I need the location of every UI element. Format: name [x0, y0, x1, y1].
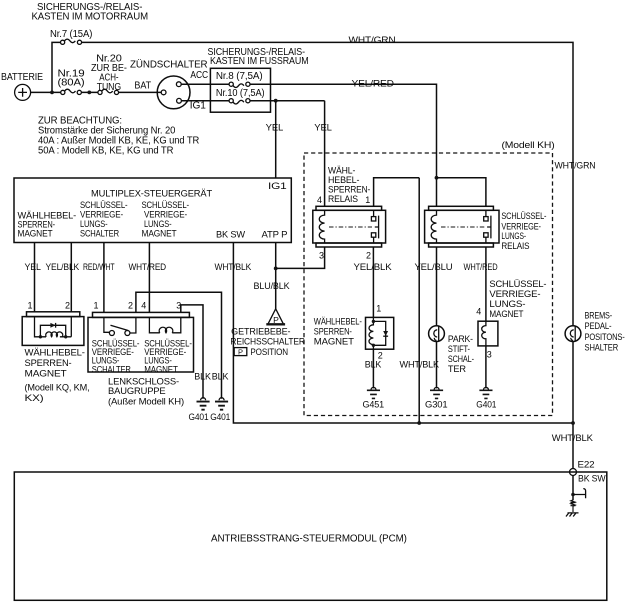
labels brake pedal position switch	[585, 310, 625, 352]
svg-text:G451: G451	[363, 400, 385, 410]
wire battery to ignition BAT	[31, 91, 162, 93]
wire relay1 pin3 to ATP P node	[276, 247, 325, 268]
svg-text:SCHLÜSSEL-: SCHLÜSSEL-	[80, 200, 128, 210]
svg-text:ACC: ACC	[190, 70, 208, 81]
multiplex control unit U-MPX	[14, 178, 291, 243]
svg-text:HEBEL-: HEBEL-	[328, 175, 359, 185]
wire YEL to relay1 pin4	[324, 101, 326, 207]
svg-text:YEL/BLU: YEL/BLU	[415, 262, 453, 272]
fuse Nr.8 (7,5A)	[216, 71, 263, 87]
svg-text:(Außer Modell KH): (Außer Modell KH)	[108, 396, 184, 406]
svg-text:LENKSCHLOSS-: LENKSCHLOSS-	[108, 377, 179, 387]
svg-text:VERRIEGE-: VERRIEGE-	[80, 210, 123, 220]
svg-text:LUNGS-: LUNGS-	[501, 231, 526, 241]
svg-text:WHT/RED: WHT/RED	[129, 262, 167, 272]
svg-text:PEDAL-: PEDAL-	[585, 321, 612, 331]
svg-text:BLK: BLK	[194, 371, 211, 381]
svg-text:VERRIEGE-: VERRIEGE-	[501, 221, 541, 231]
relay U1 body	[313, 206, 386, 247]
wire relay1 pin1 up-over-down to WHT/BLK net	[374, 178, 420, 423]
PCM box ANTRIEBSSTRANG-STEUERMODUL	[14, 472, 607, 600]
wire brake switch down to E22	[572, 342, 574, 469]
svg-text:YEL/BLK: YEL/BLK	[354, 262, 392, 272]
svg-text:WHT/GRN: WHT/GRN	[349, 35, 396, 45]
labels BLK BLK	[194, 371, 228, 381]
svg-text:G301: G301	[425, 400, 448, 410]
svg-text:GETRIEBEBE-: GETRIEBEBE-	[231, 326, 290, 336]
wire YEL/BLK relay1 pin2 to KH magnet	[372, 247, 374, 317]
svg-text:2: 2	[366, 250, 371, 260]
labels KH solenoid	[314, 317, 362, 347]
wire WHT/RED multiplex to lenkschloss pin4	[148, 243, 150, 313]
wire BLK to G451	[372, 349, 374, 388]
relay U1 WAHLHEBEL-SPERREN-RELAIS labels	[317, 165, 370, 205]
svg-text:50A : Modell KB, KE, KG und TR: 50A : Modell KB, KE, KG und TR	[38, 145, 173, 156]
svg-text:VERRIEGE-: VERRIEGE-	[489, 289, 540, 299]
labels relay U2	[501, 211, 546, 251]
wire WHT/BLK multiplex BK SW down and across to E22 net	[233, 243, 573, 424]
svg-text:YEL/RED: YEL/RED	[352, 78, 395, 88]
svg-text:PARK-: PARK-	[448, 334, 473, 344]
wire YEL/BLK multiplex to magnet pin2	[70, 243, 72, 312]
svg-text:2: 2	[65, 301, 70, 311]
svg-text:SCHLÜSSEL-: SCHLÜSSEL-	[501, 211, 546, 221]
svg-text:SCHALTER: SCHALTER	[80, 229, 120, 239]
wire YEL multiplex to magnet pin1	[34, 243, 36, 312]
svg-text:BAT: BAT	[134, 80, 151, 91]
labels shift-lock solenoid KQ/KM/KX	[25, 348, 90, 404]
svg-text:MULTIPLEX-STEUERGERÄT: MULTIPLEX-STEUERGERÄT	[91, 189, 213, 199]
wire solenoid to G401	[485, 346, 487, 389]
svg-text:BK SW: BK SW	[578, 473, 606, 483]
ignition switch	[157, 76, 190, 109]
svg-text:LUNGS-: LUNGS-	[80, 219, 108, 229]
wire ACC to fuse8 and on to YEL/RED	[181, 84, 436, 206]
labels steering lock assembly	[108, 377, 184, 407]
fuse Nr.10 (7,5A)	[216, 88, 265, 104]
wire YEL to multiplex IG1	[275, 101, 277, 178]
svg-text:TER: TER	[448, 364, 467, 374]
svg-text:Nr.8 (7,5A): Nr.8 (7,5A)	[216, 71, 263, 82]
shift-lock solenoid (Modell KQ KM KX)	[22, 301, 84, 346]
svg-text:BREMS-: BREMS-	[585, 310, 613, 320]
ground G401 left pair 2	[210, 398, 230, 422]
key interlock switch inside assembly	[92, 317, 140, 374]
svg-text:BATTERIE: BATTERIE	[1, 72, 43, 83]
svg-text:SPERREN-: SPERREN-	[25, 358, 72, 368]
svg-text:SCHALTER: SCHALTER	[92, 364, 132, 374]
svg-text:ZÜNDSCHALTER: ZÜNDSCHALTER	[130, 60, 208, 71]
svg-text:P: P	[238, 347, 243, 356]
ground G401 (KH)	[476, 387, 496, 409]
svg-text:LUNGS-: LUNGS-	[489, 299, 525, 309]
svg-text:E22: E22	[578, 459, 595, 469]
svg-text:4: 4	[141, 301, 146, 311]
svg-text:KX): KX)	[25, 393, 44, 403]
fuse Nr.20 ZUR BEACHTUNG	[91, 54, 127, 95]
svg-text:IG1: IG1	[190, 101, 206, 112]
svg-text:REICHSSCHALTER: REICHSSCHALTER	[230, 337, 305, 347]
label engine-room fuse/relay box	[32, 2, 149, 23]
wire branch to relay2 contact pin	[437, 178, 486, 207]
svg-text:1: 1	[376, 303, 381, 313]
svg-text:KASTEN IM MOTORRAUM: KASTEN IM MOTORRAUM	[32, 12, 149, 23]
junction dot battery branch	[50, 91, 54, 95]
relay U2 SCHLUSSEL-VERRIEGELUNGS-RELAIS body	[425, 206, 499, 247]
transmission range switch P position symbol	[266, 309, 285, 325]
svg-text:SCHAL-: SCHAL-	[448, 354, 474, 364]
svg-text:WHT/BLK: WHT/BLK	[215, 262, 252, 272]
svg-text:SHALTER: SHALTER	[585, 343, 619, 353]
junction dot WHT/BLK bus right	[571, 421, 575, 425]
brake pedal position switch	[565, 326, 581, 342]
junction dot YEL/RED branch	[435, 176, 439, 180]
wire lenkschloss pin2 up over to right BLK ground	[136, 292, 222, 399]
connector E22	[570, 469, 577, 476]
junction dot fuse10 output	[274, 99, 278, 103]
svg-text:STIFT-: STIFT-	[448, 344, 470, 354]
labels PARK-STIFT-SCHALTER	[448, 334, 474, 374]
svg-text:WHT/RED: WHT/RED	[464, 262, 499, 272]
svg-text:BLK: BLK	[365, 359, 382, 369]
svg-text:SPERREN-: SPERREN-	[328, 184, 370, 194]
svg-text:BLU/BLK: BLU/BLK	[254, 281, 290, 291]
svg-text:WHT/GRN: WHT/GRN	[555, 161, 596, 171]
wire YEL/BLU relay2 coil to park switch	[436, 247, 438, 326]
svg-text:(Modell KQ, KM,: (Modell KQ, KM,	[25, 383, 90, 393]
svg-text:YEL: YEL	[25, 262, 41, 272]
svg-text:4: 4	[317, 195, 322, 205]
svg-text:VERRIEGE-: VERRIEGE-	[144, 210, 187, 220]
key interlock solenoid inside assembly	[144, 317, 192, 374]
svg-text:YEL: YEL	[266, 123, 284, 133]
wire WHT/GRN top run (fuse7 to right edge, down)	[52, 42, 573, 325]
svg-text:1: 1	[94, 301, 99, 311]
label GETRIEBEBEREICHSSCHALTER	[230, 326, 305, 357]
svg-text:MAGNET: MAGNET	[489, 309, 524, 319]
svg-text:3: 3	[319, 250, 324, 260]
svg-text:BK SW: BK SW	[216, 230, 246, 240]
svg-text:MAGNET: MAGNET	[18, 229, 54, 239]
svg-text:RED/WHT: RED/WHT	[83, 262, 115, 272]
wire IG1 to fuse10 and on	[181, 100, 324, 102]
wire BLU/BLK multiplex ATP P down to P triangle	[275, 243, 277, 310]
labels relay1 bottom pins	[319, 250, 392, 271]
junction dot WHT/BLK at bus	[417, 421, 421, 425]
svg-text:YEL: YEL	[314, 123, 332, 133]
svg-text:(Modell KH): (Modell KH)	[502, 140, 555, 150]
svg-text:BAUGRUPPE: BAUGRUPPE	[108, 386, 166, 396]
fuse Nr.7	[61, 39, 82, 44]
svg-text:WHT/BLK: WHT/BLK	[400, 359, 440, 369]
ground G451	[363, 387, 385, 409]
svg-text:MAGNET: MAGNET	[144, 364, 178, 374]
footwell fuse box	[210, 68, 270, 112]
wire lenkschloss pin3 up over to left BLK ground	[181, 305, 203, 399]
svg-text:1: 1	[28, 301, 33, 311]
PCM internal driver to chassis ground	[566, 476, 586, 517]
svg-text:G401: G401	[189, 412, 209, 422]
note ZUR BEACHTUNG block	[38, 115, 199, 156]
wire park switch to G301	[436, 342, 438, 389]
svg-text:RELAIS: RELAIS	[328, 194, 358, 204]
fuse Nr.19 (80A)	[58, 69, 85, 95]
svg-text:IG1: IG1	[268, 181, 287, 191]
svg-text:ANTRIEBSSTRANG-STEUERMODUL (PC: ANTRIEBSSTRANG-STEUERMODUL (PCM)	[211, 534, 407, 545]
svg-text:BLK: BLK	[212, 371, 229, 381]
svg-text:4: 4	[476, 307, 481, 317]
svg-text:Nr.7 (15A): Nr.7 (15A)	[50, 29, 92, 40]
svg-text:WÄHL-: WÄHL-	[328, 165, 355, 175]
svg-text:LUNGS-: LUNGS-	[144, 219, 172, 229]
KH shift-lock solenoid WAHLHEBEL-SPERREN-MAGNET	[366, 303, 394, 360]
svg-text:SCHLÜSSEL-: SCHLÜSSEL-	[489, 279, 546, 289]
svg-text:WÄHLHEBEL-: WÄHLHEBEL-	[314, 317, 362, 327]
junction dot between fuse19 and fuse20	[87, 91, 91, 95]
wire WHT/RED relay2 contact to key-lock solenoid	[485, 247, 487, 321]
svg-text:MAGNET: MAGNET	[142, 229, 178, 239]
svg-text:MAGNET: MAGNET	[314, 337, 355, 347]
svg-text:SCHLÜSSEL-: SCHLÜSSEL-	[142, 200, 190, 210]
svg-text:Nr.10 (7,5A): Nr.10 (7,5A)	[216, 88, 265, 99]
ground G401 left pair 1	[189, 398, 210, 422]
label footwell fuse/relay box	[208, 47, 309, 67]
dashed box Modell KH	[304, 153, 553, 416]
svg-text:P: P	[273, 315, 279, 325]
park pin switch symbol	[429, 326, 445, 342]
svg-text:SPERREN-: SPERREN-	[314, 327, 352, 337]
svg-text:1: 1	[365, 195, 370, 205]
svg-text:3: 3	[487, 349, 492, 359]
key-lock solenoid SCHLUSSEL-VERRIEGELUNGS-MAGNET (KH)	[476, 279, 546, 359]
svg-text:POSITONS-: POSITONS-	[585, 332, 625, 342]
svg-text:(80A): (80A)	[58, 78, 85, 89]
svg-text:G401: G401	[210, 412, 230, 422]
svg-text:ATP P: ATP P	[262, 230, 288, 240]
svg-text:KASTEN IM FUSSRAUM: KASTEN IM FUSSRAUM	[210, 56, 309, 67]
svg-text:MAGNET: MAGNET	[25, 369, 68, 379]
battery BATTERIE	[1, 72, 43, 100]
ground G301	[425, 387, 448, 409]
svg-text:POSITION: POSITION	[250, 347, 288, 357]
svg-text:RELAIS: RELAIS	[501, 241, 529, 251]
steering lock assembly LENKSCHLOSS-BAUGRUPPE	[88, 301, 194, 373]
svg-text:G401: G401	[476, 400, 496, 410]
svg-text:WHT/BLK: WHT/BLK	[552, 433, 593, 443]
wire RED/WHT multiplex to lenkschloss pin1	[103, 243, 105, 313]
svg-text:2: 2	[128, 301, 133, 311]
svg-text:YEL/BLK: YEL/BLK	[46, 262, 80, 272]
svg-text:WÄHLHEBEL-: WÄHLHEBEL-	[25, 348, 85, 358]
junction dot ATP P branch	[274, 267, 278, 271]
